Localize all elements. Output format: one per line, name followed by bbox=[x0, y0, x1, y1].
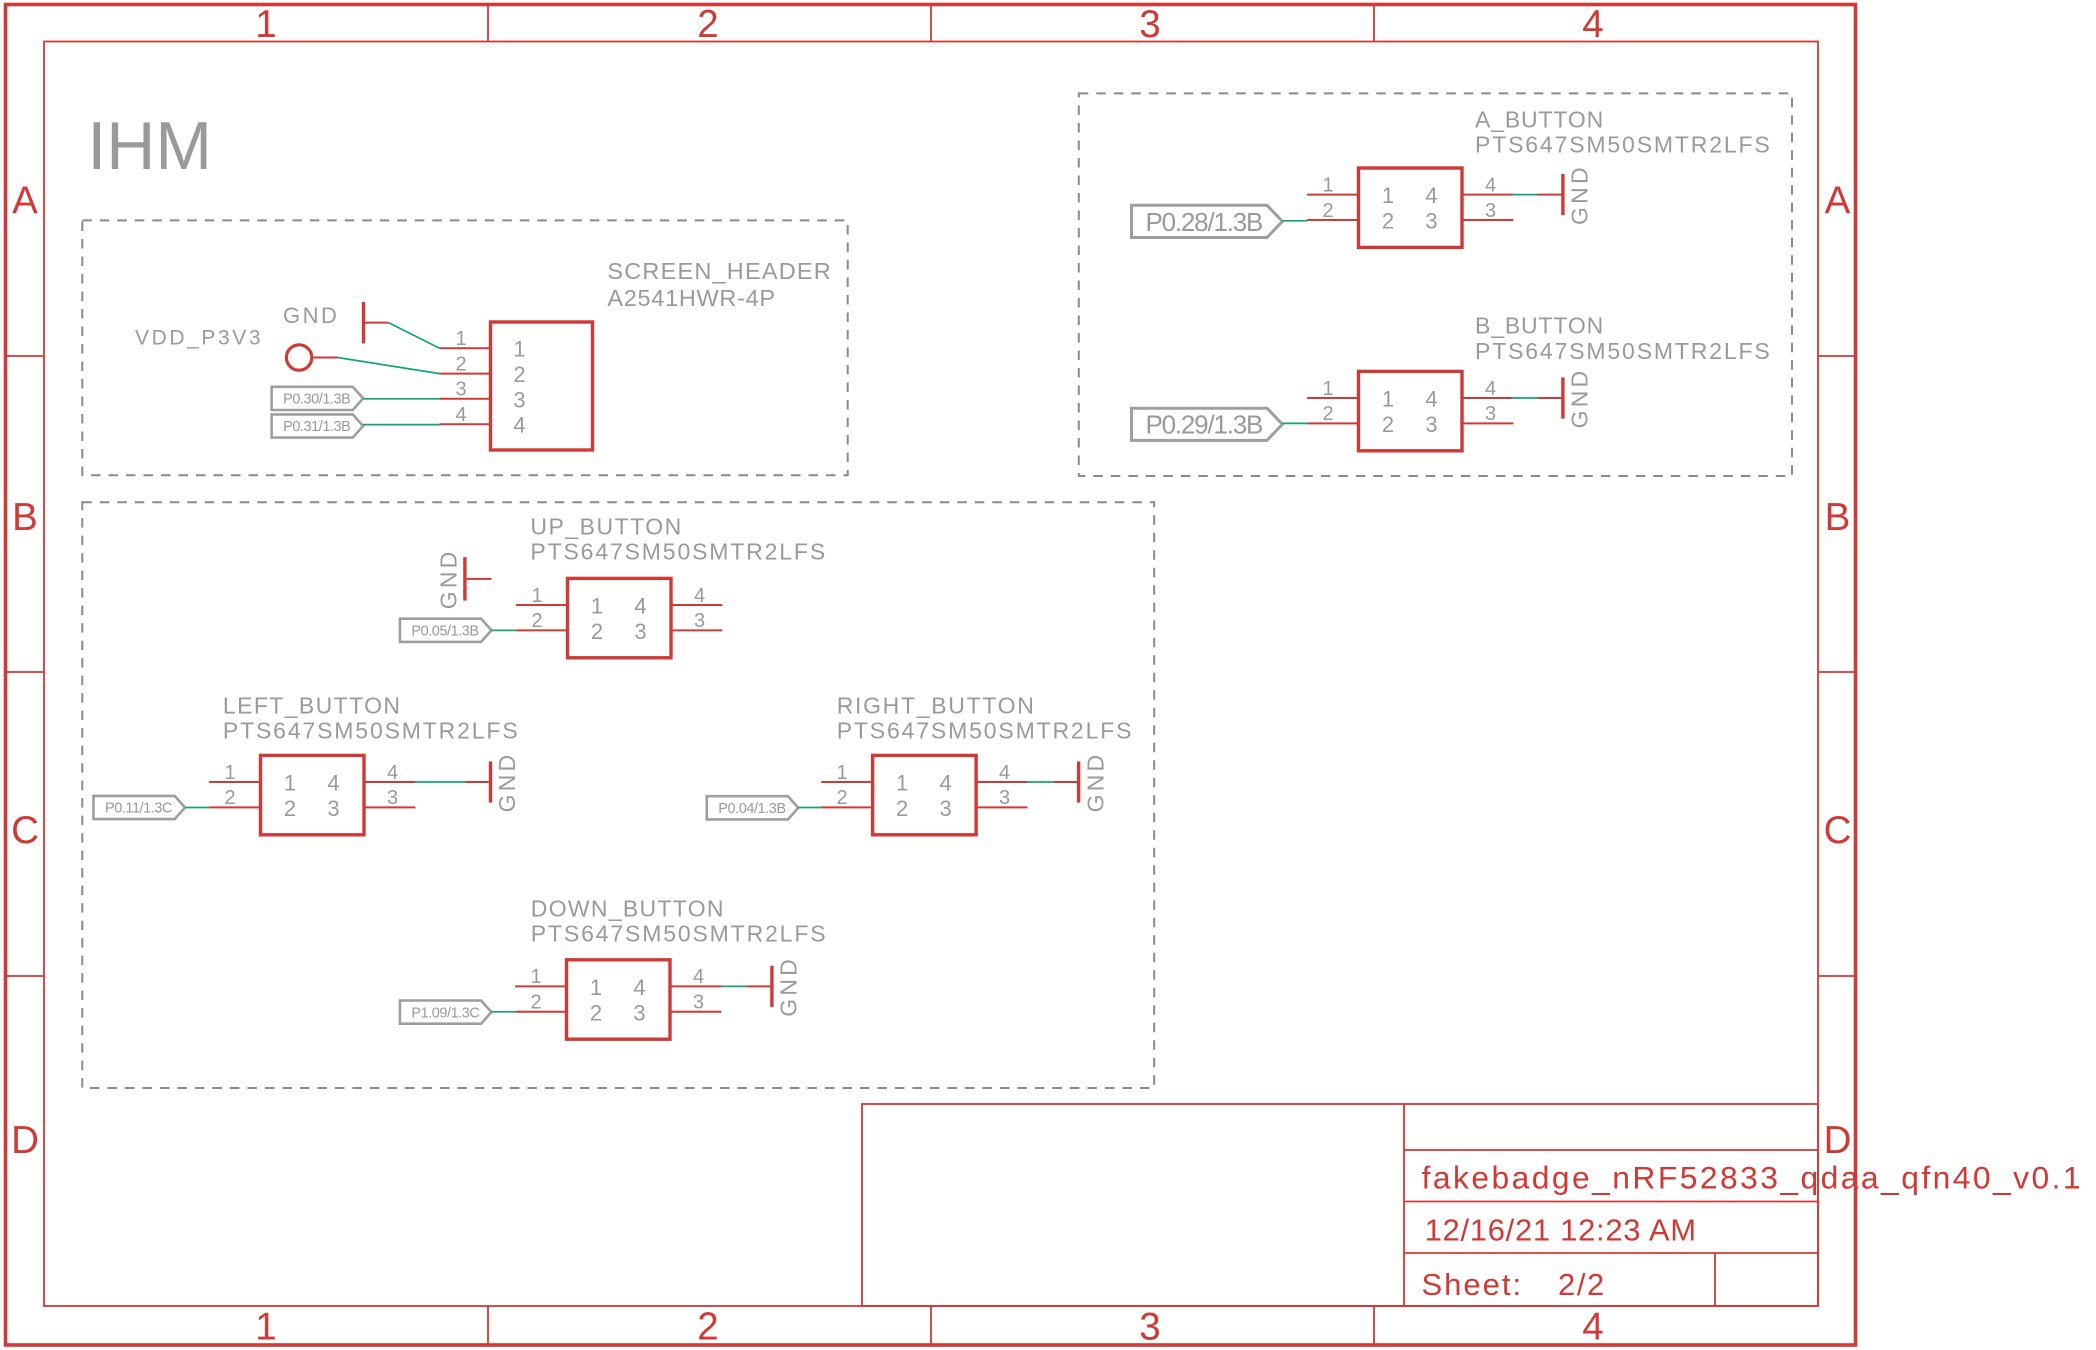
svg-text:4: 4 bbox=[633, 975, 645, 1000]
frame right row tick y=356 bbox=[1818, 355, 1856, 357]
title block row line 2 bbox=[1404, 1201, 1818, 1203]
svg-text:1: 1 bbox=[224, 762, 235, 784]
svg-text:PTS647SM50SMTR2LFS: PTS647SM50SMTR2LFS bbox=[530, 539, 827, 565]
svg-text:4: 4 bbox=[1425, 387, 1437, 412]
svg-text:2: 2 bbox=[531, 610, 542, 632]
svg-text:1: 1 bbox=[590, 975, 602, 1000]
svg-text:GND: GND bbox=[1082, 752, 1108, 813]
A_BUTTON pin 1 bbox=[1307, 194, 1358, 196]
ground symbol DOWN_BUTTON bbox=[770, 966, 773, 1007]
A_BUTTON pin 4 bbox=[1462, 194, 1513, 196]
svg-text:1: 1 bbox=[284, 771, 296, 796]
svg-text:3: 3 bbox=[327, 796, 339, 821]
net label P1.09/1.3C bbox=[400, 1001, 492, 1024]
title block row line 1 bbox=[1404, 1149, 1818, 1151]
UP_BUTTON pin 1 bbox=[516, 604, 567, 606]
A_BUTTON pin 3 bbox=[1462, 219, 1513, 221]
svg-text:3: 3 bbox=[999, 787, 1010, 809]
A_BUTTON pin 2 bbox=[1307, 219, 1358, 221]
svg-text:GND: GND bbox=[283, 303, 339, 328]
VDD_P3V3 lead bbox=[313, 357, 337, 359]
frame top column tick x=1374 bbox=[1373, 5, 1375, 42]
svg-text:C: C bbox=[1824, 809, 1852, 852]
svg-text:1: 1 bbox=[255, 3, 276, 46]
svg-text:1: 1 bbox=[1322, 378, 1333, 400]
svg-text:Sheet:: Sheet: bbox=[1422, 1267, 1524, 1302]
svg-text:GND: GND bbox=[494, 752, 520, 813]
svg-text:4: 4 bbox=[327, 771, 339, 796]
svg-text:DOWN_BUTTON: DOWN_BUTTON bbox=[531, 895, 725, 921]
frame top column tick x=931 bbox=[930, 5, 932, 42]
svg-text:3: 3 bbox=[1485, 403, 1496, 425]
svg-text:3: 3 bbox=[693, 992, 704, 1014]
DOWN_BUTTON pin 4 bbox=[670, 985, 721, 987]
SCREEN_HEADER pin 3 bbox=[440, 398, 491, 400]
wire P0.04 to RIGHT_BUTTON pin 2 bbox=[798, 807, 821, 809]
svg-text:P0.05/1.3B: P0.05/1.3B bbox=[411, 624, 478, 640]
wire P0.05 to UP_BUTTON pin 2 bbox=[491, 629, 516, 631]
UP_BUTTON ground lead bbox=[467, 578, 492, 580]
svg-text:1: 1 bbox=[455, 328, 466, 350]
svg-text:2: 2 bbox=[530, 992, 541, 1014]
svg-text:LEFT_BUTTON: LEFT_BUTTON bbox=[223, 693, 402, 719]
ground symbol lead (LEFT_BUTTON) bbox=[465, 781, 489, 783]
ground symbol UP_BUTTON bbox=[463, 557, 466, 600]
wire GND net (DOWN_BUTTON) bbox=[721, 985, 747, 987]
svg-text:1: 1 bbox=[837, 762, 848, 784]
dashed group box direction buttons section bbox=[82, 502, 1154, 1088]
B_BUTTON pin 4 bbox=[1462, 397, 1513, 399]
svg-text:1: 1 bbox=[255, 1305, 276, 1348]
svg-text:4: 4 bbox=[693, 966, 704, 988]
frame top column tick x=488 bbox=[487, 5, 489, 42]
svg-text:2: 2 bbox=[896, 796, 908, 821]
ground symbol RIGHT_BUTTON bbox=[1077, 761, 1080, 802]
title block sheet cell divider bbox=[1714, 1253, 1716, 1306]
svg-text:2: 2 bbox=[1382, 209, 1394, 234]
svg-text:4: 4 bbox=[634, 594, 646, 619]
wire P0.29 to B_BUTTON pin 2 bbox=[1282, 422, 1307, 424]
DOWN_BUTTON pin 1 bbox=[515, 985, 566, 987]
frame left row tick y=356 bbox=[6, 355, 45, 357]
wire P1.09 to DOWN_BUTTON pin 2 bbox=[491, 1011, 515, 1013]
svg-text:1: 1 bbox=[896, 771, 908, 796]
svg-text:P0.31/1.3B: P0.31/1.3B bbox=[283, 419, 350, 435]
svg-text:PTS647SM50SMTR2LFS: PTS647SM50SMTR2LFS bbox=[1475, 338, 1772, 364]
ground symbol LEFT_BUTTON bbox=[489, 761, 492, 802]
svg-text:A: A bbox=[12, 179, 38, 222]
title block row line 3 bbox=[1404, 1252, 1818, 1254]
wire P0.31 to pin 4 bbox=[363, 424, 439, 426]
svg-text:B: B bbox=[1825, 496, 1851, 539]
ground symbol screen header bbox=[362, 302, 365, 344]
net label P0.31/1.3B bbox=[272, 414, 364, 437]
svg-text:B_BUTTON: B_BUTTON bbox=[1475, 313, 1604, 339]
svg-text:3: 3 bbox=[1425, 209, 1437, 234]
connector SCREEN_HEADER body bbox=[491, 322, 593, 450]
svg-text:UP_BUTTON: UP_BUTTON bbox=[530, 514, 682, 540]
svg-text:P0.28/1.3B: P0.28/1.3B bbox=[1146, 207, 1263, 237]
svg-text:PTS647SM50SMTR2LFS: PTS647SM50SMTR2LFS bbox=[1475, 131, 1772, 157]
svg-text:2: 2 bbox=[1322, 200, 1333, 222]
svg-text:2: 2 bbox=[591, 619, 603, 644]
RIGHT_BUTTON pin 4 bbox=[976, 781, 1027, 783]
svg-text:3: 3 bbox=[694, 610, 705, 632]
svg-text:GND: GND bbox=[1567, 368, 1593, 429]
ground symbol lead (screen header) bbox=[365, 322, 389, 324]
svg-text:4: 4 bbox=[455, 404, 466, 426]
svg-text:4: 4 bbox=[1582, 1305, 1603, 1348]
svg-text:GND: GND bbox=[776, 956, 802, 1017]
svg-text:PTS647SM50SMTR2LFS: PTS647SM50SMTR2LFS bbox=[531, 921, 828, 947]
svg-text:A: A bbox=[1825, 179, 1851, 222]
svg-text:2: 2 bbox=[837, 787, 848, 809]
svg-text:1: 1 bbox=[530, 966, 541, 988]
svg-text:2: 2 bbox=[697, 1305, 718, 1348]
svg-text:4: 4 bbox=[513, 413, 525, 438]
svg-text:C: C bbox=[11, 809, 39, 852]
svg-text:SCREEN_HEADER: SCREEN_HEADER bbox=[607, 258, 832, 284]
svg-text:P0.30/1.3B: P0.30/1.3B bbox=[283, 392, 350, 408]
svg-text:3: 3 bbox=[633, 1000, 645, 1025]
wire GND net (A_BUTTON) bbox=[1512, 194, 1538, 196]
B_BUTTON pin 2 bbox=[1307, 422, 1358, 424]
LEFT_BUTTON pin 3 bbox=[364, 806, 415, 808]
UP_BUTTON pin 3 bbox=[671, 629, 722, 631]
svg-text:4: 4 bbox=[1485, 174, 1496, 196]
svg-text:3: 3 bbox=[1139, 1305, 1160, 1348]
svg-text:4: 4 bbox=[1485, 378, 1496, 400]
svg-text:3: 3 bbox=[513, 387, 525, 412]
dashed group box SCREEN_HEADER section bbox=[82, 220, 847, 475]
svg-text:3: 3 bbox=[939, 796, 951, 821]
svg-text:2: 2 bbox=[1382, 412, 1394, 437]
svg-text:2: 2 bbox=[224, 787, 235, 809]
DOWN_BUTTON pin 3 bbox=[670, 1011, 721, 1013]
UP_BUTTON pin 2 bbox=[516, 629, 567, 631]
UP_BUTTON pin 4 bbox=[671, 604, 722, 606]
svg-text:PTS647SM50SMTR2LFS: PTS647SM50SMTR2LFS bbox=[837, 718, 1134, 744]
DOWN_BUTTON pin 2 bbox=[515, 1011, 566, 1013]
frame bottom column tick x=931 bbox=[930, 1306, 932, 1345]
frame right row tick y=672 bbox=[1818, 671, 1856, 673]
SCREEN_HEADER pin 1 bbox=[440, 347, 491, 349]
B_BUTTON pin 3 bbox=[1462, 422, 1513, 424]
SCREEN_HEADER pin 4 bbox=[440, 423, 491, 425]
svg-text:A2541HWR-4P: A2541HWR-4P bbox=[607, 285, 775, 311]
wire VDD_P3V3 to pin 2 bbox=[338, 358, 440, 374]
ground symbol B_BUTTON bbox=[1561, 377, 1564, 418]
svg-text:2: 2 bbox=[1322, 403, 1333, 425]
frame bottom column tick x=1374 bbox=[1373, 1306, 1375, 1345]
svg-text:2: 2 bbox=[455, 353, 466, 375]
svg-text:3: 3 bbox=[1139, 3, 1160, 46]
svg-text:2: 2 bbox=[513, 362, 525, 387]
svg-text:GND: GND bbox=[1567, 164, 1593, 225]
dashed group box A/B buttons section bbox=[1079, 93, 1792, 476]
frame left row tick y=976 bbox=[6, 975, 45, 977]
svg-text:1: 1 bbox=[1322, 174, 1333, 196]
ground symbol lead (RIGHT_BUTTON) bbox=[1053, 781, 1077, 783]
wire P0.30 to pin 3 bbox=[363, 398, 439, 400]
svg-text:A_BUTTON: A_BUTTON bbox=[1475, 106, 1604, 132]
net label P0.28/1.3B bbox=[1132, 205, 1283, 237]
LEFT_BUTTON pin 1 bbox=[209, 781, 260, 783]
svg-text:2: 2 bbox=[590, 1000, 602, 1025]
svg-text:2/2: 2/2 bbox=[1558, 1267, 1606, 1302]
svg-text:3: 3 bbox=[1425, 412, 1437, 437]
svg-text:4: 4 bbox=[999, 762, 1010, 784]
wire P0.11 to LEFT_BUTTON pin 2 bbox=[185, 807, 209, 809]
switch UP_BUTTON body bbox=[568, 578, 672, 657]
LEFT_BUTTON pin 4 bbox=[364, 781, 415, 783]
svg-text:1: 1 bbox=[591, 594, 603, 619]
switch A_BUTTON body bbox=[1359, 168, 1463, 247]
svg-text:4: 4 bbox=[694, 585, 705, 607]
svg-text:2: 2 bbox=[697, 3, 718, 46]
svg-text:3: 3 bbox=[634, 619, 646, 644]
svg-text:2: 2 bbox=[284, 796, 296, 821]
RIGHT_BUTTON pin 2 bbox=[821, 806, 872, 808]
svg-text:IHM: IHM bbox=[87, 108, 212, 184]
svg-text:1: 1 bbox=[531, 585, 542, 607]
net label P0.04/1.3B bbox=[707, 796, 799, 819]
svg-text:4: 4 bbox=[1425, 183, 1437, 208]
frame left row tick y=672 bbox=[6, 671, 45, 673]
svg-text:4: 4 bbox=[939, 771, 951, 796]
RIGHT_BUTTON pin 1 bbox=[821, 781, 872, 783]
svg-text:4: 4 bbox=[387, 762, 398, 784]
svg-text:4: 4 bbox=[1582, 3, 1603, 46]
ground symbol lead (B_BUTTON) bbox=[1538, 397, 1562, 399]
SCREEN_HEADER pin 2 bbox=[440, 373, 491, 375]
svg-text:P0.04/1.3B: P0.04/1.3B bbox=[718, 801, 785, 817]
net label P0.29/1.3B bbox=[1132, 408, 1283, 440]
wire GND net (LEFT_BUTTON) bbox=[415, 781, 465, 783]
title block vertical divider bbox=[1403, 1104, 1405, 1306]
switch B_BUTTON body bbox=[1359, 371, 1463, 450]
ground symbol A_BUTTON bbox=[1561, 174, 1564, 215]
RIGHT_BUTTON pin 3 bbox=[976, 806, 1027, 808]
frame right row tick y=976 bbox=[1818, 975, 1856, 977]
svg-text:VDD_P3V3: VDD_P3V3 bbox=[135, 327, 263, 350]
svg-text:3: 3 bbox=[1485, 200, 1496, 222]
LEFT_BUTTON pin 2 bbox=[209, 806, 260, 808]
net label P0.11/1.3C bbox=[94, 796, 186, 819]
svg-text:1: 1 bbox=[1382, 387, 1394, 412]
svg-text:PTS647SM50SMTR2LFS: PTS647SM50SMTR2LFS bbox=[223, 718, 520, 744]
wire GND net (B_BUTTON) bbox=[1512, 397, 1538, 399]
svg-text:RIGHT_BUTTON: RIGHT_BUTTON bbox=[837, 693, 1036, 719]
svg-text:GND: GND bbox=[436, 549, 462, 610]
svg-text:fakebadge_nRF52833_qdaa_qfn40_: fakebadge_nRF52833_qdaa_qfn40_v0.1 bbox=[1422, 1159, 2083, 1195]
wire GND to pin 1 bbox=[389, 323, 440, 349]
ground symbol lead (A_BUTTON) bbox=[1538, 194, 1562, 196]
svg-text:1: 1 bbox=[513, 337, 525, 362]
svg-text:3: 3 bbox=[387, 787, 398, 809]
svg-text:D: D bbox=[11, 1119, 39, 1162]
svg-text:12/16/21 12:23 AM: 12/16/21 12:23 AM bbox=[1425, 1213, 1697, 1248]
frame bottom column tick x=488 bbox=[487, 1306, 489, 1345]
svg-text:P1.09/1.3C: P1.09/1.3C bbox=[411, 1005, 479, 1021]
svg-text:P0.29/1.3B: P0.29/1.3B bbox=[1146, 410, 1263, 440]
net label P0.05/1.3B bbox=[400, 619, 492, 642]
svg-text:1: 1 bbox=[1382, 183, 1394, 208]
supply symbol VDD_P3V3 circle bbox=[286, 345, 311, 370]
wire GND net (RIGHT_BUTTON) bbox=[1027, 781, 1053, 783]
svg-text:3: 3 bbox=[455, 379, 466, 401]
svg-text:D: D bbox=[1824, 1119, 1852, 1162]
switch LEFT_BUTTON body bbox=[261, 755, 365, 834]
switch DOWN_BUTTON body bbox=[567, 960, 671, 1039]
wire P0.28 to A_BUTTON pin 2 bbox=[1282, 220, 1307, 222]
ground symbol lead (DOWN_BUTTON) bbox=[747, 985, 771, 987]
sheet frame inner border bbox=[44, 42, 1818, 1307]
switch RIGHT_BUTTON body bbox=[873, 755, 977, 834]
net label P0.30/1.3B bbox=[272, 387, 364, 410]
title block outline bbox=[862, 1104, 1818, 1306]
B_BUTTON pin 1 bbox=[1307, 397, 1358, 399]
svg-text:P0.11/1.3C: P0.11/1.3C bbox=[105, 801, 172, 817]
svg-text:B: B bbox=[12, 496, 38, 539]
